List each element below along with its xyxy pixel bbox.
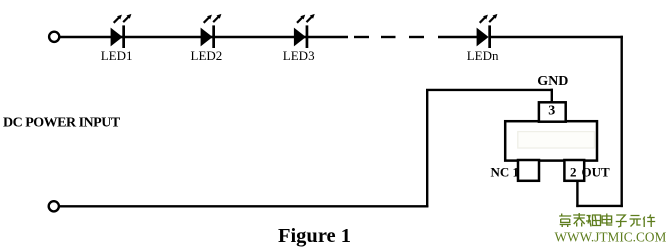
- IC U1 body (SOT-23 regulator): [505, 121, 597, 160]
- char zi: [616, 215, 627, 227]
- IC U1 faint inner marking rectangle: [518, 132, 595, 148]
- LED LEDn: [477, 14, 498, 48]
- char mu: [586, 215, 601, 227]
- char yuan: [630, 216, 642, 227]
- wire drop from OUT pin 2: [576, 181, 578, 208]
- svg-text:GND: GND: [537, 74, 568, 89]
- wire dashed continuation segment: [354, 36, 424, 38]
- char dian: [602, 214, 612, 226]
- wire GND horizontal net: [426, 89, 553, 91]
- svg-text:LED3: LED3: [283, 48, 315, 63]
- terminal J1 positive input (top-left circle): [49, 32, 59, 42]
- svg-text:WWW.JTMIC.COM: WWW.JTMIC.COM: [555, 229, 666, 244]
- svg-text:OUT: OUT: [582, 165, 611, 180]
- wire GND stub from net to pin 3: [551, 89, 553, 103]
- wire top rail from input terminal through LED1..LED3: [60, 36, 348, 38]
- pin 1 (NC): [518, 160, 539, 181]
- LED LED2: [201, 14, 222, 48]
- LED LED1: [111, 14, 132, 48]
- wire from LEDn to right edge: [491, 36, 623, 38]
- wire bottom return rail: [59, 205, 428, 207]
- terminal J2 negative input (bottom-left circle): [49, 201, 59, 211]
- char jian: [643, 215, 655, 228]
- svg-text:3: 3: [548, 104, 555, 119]
- LED LED3: [294, 14, 315, 48]
- svg-text:2: 2: [570, 165, 577, 180]
- pin 3 (GND tab): [539, 102, 566, 121]
- watermark Chinese characters (drawn strokes): [559, 213, 655, 227]
- svg-text:LEDn: LEDn: [467, 48, 499, 63]
- svg-text:NC 1: NC 1: [490, 165, 519, 180]
- wire right-side vertical drop: [621, 36, 623, 207]
- wire bottom-right horizontal to OUT pin: [576, 205, 623, 207]
- svg-text:LED2: LED2: [191, 48, 223, 63]
- char tai: [573, 213, 585, 227]
- svg-text:LED1: LED1: [101, 48, 133, 63]
- wire solid into LEDn: [438, 36, 477, 38]
- wire left vertical return: [426, 90, 428, 207]
- pin 2 (OUT): [564, 160, 584, 181]
- svg-text:Figure 1: Figure 1: [278, 225, 351, 247]
- svg-text:DC POWER INPUT: DC POWER INPUT: [3, 115, 121, 130]
- char jia: [559, 214, 571, 228]
